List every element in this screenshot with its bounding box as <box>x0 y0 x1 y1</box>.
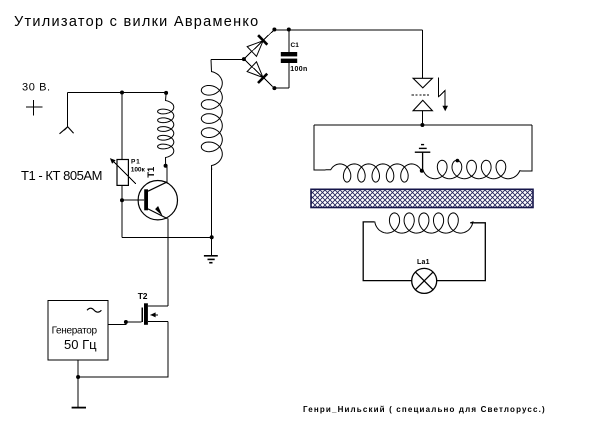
resistor P1 body <box>117 160 128 186</box>
wire source down and left <box>78 322 168 377</box>
wire bus <box>314 124 532 126</box>
inductor L3 bifilar left <box>326 164 422 182</box>
node gate dot <box>124 320 128 324</box>
svg-text:P1: P1 <box>131 159 141 166</box>
wire to ground symbol <box>211 237 213 255</box>
wire base <box>122 199 144 201</box>
svg-text:C1: C1 <box>291 42 300 49</box>
svg-text:30 В.: 30 В. <box>22 82 51 94</box>
screen plate hatched <box>311 189 533 207</box>
wire L2 top to diode node <box>211 59 244 61</box>
generator box <box>48 301 108 361</box>
spark gap FV1 <box>412 78 433 125</box>
wire receiver loop right <box>437 223 486 281</box>
svg-text:50 Гц: 50 Гц <box>64 337 97 352</box>
resistor P1 wiper arrow <box>110 158 136 184</box>
wire P1 to base node <box>121 185 123 200</box>
node C1 tap <box>287 28 291 32</box>
transistor T1 <box>138 181 177 220</box>
wire bus left drop <box>314 125 326 170</box>
node bifilar center <box>420 169 424 173</box>
wire generator bottom <box>77 360 79 408</box>
ground <box>204 256 218 263</box>
svg-text:T2: T2 <box>138 291 148 301</box>
node top rail left <box>272 28 276 32</box>
svg-text:Генератор: Генератор <box>52 326 98 337</box>
diode VD2 lower <box>244 59 275 88</box>
node bus junction <box>420 123 424 127</box>
node coil bottom / collector <box>164 164 168 168</box>
wire ground horizontal <box>122 236 212 238</box>
node coil top <box>164 91 168 95</box>
wire top-left horizontal <box>68 92 166 94</box>
wire base node down <box>121 200 123 237</box>
lamp La1 <box>412 268 437 293</box>
wire drain up <box>167 300 169 306</box>
node diode center <box>242 57 246 61</box>
node winding tap <box>456 159 460 163</box>
node source junction <box>76 375 80 379</box>
node base junction <box>120 198 124 202</box>
capacitor C1 <box>281 30 297 88</box>
inductor L5 receiver <box>374 213 473 233</box>
diode VD1 upper <box>244 30 275 60</box>
svg-text:Т1: Т1 <box>146 166 157 178</box>
wire bifilar right end <box>522 125 533 171</box>
wire collector <box>166 166 168 182</box>
wire gate from generator <box>109 324 127 326</box>
wire diode bottom to C1 <box>274 87 288 89</box>
wire gate to T2 <box>126 321 142 323</box>
inductor L4 bifilar right <box>423 160 522 178</box>
node junction top <box>120 91 124 95</box>
wire top rail <box>274 29 422 31</box>
node diode bottom <box>272 86 276 90</box>
wire emitter down to T2 drain <box>167 219 169 307</box>
generator sine symbol <box>87 308 101 312</box>
wire receiver loop left <box>363 222 412 281</box>
svg-text:La1: La1 <box>417 259 430 266</box>
plus symbol <box>26 100 42 115</box>
wire antenna drop <box>67 93 69 127</box>
svg-text:100n: 100n <box>290 66 307 73</box>
svg-text:100к: 100к <box>131 166 146 173</box>
wire top rail drop to spark gap <box>421 30 423 78</box>
ground bar bottom <box>72 407 86 409</box>
svg-text:Утилизатор с вилки Авраменко: Утилизатор с вилки Авраменко <box>14 14 260 30</box>
wire to P1 <box>121 93 123 160</box>
inductor L2 secondary <box>201 60 222 171</box>
inverted ground electrode <box>415 145 431 171</box>
wire L2 bottom stem <box>211 168 213 238</box>
inductor L1 feedback winding <box>158 93 174 164</box>
antenna arrow terminal <box>60 127 74 134</box>
svg-text:Т1 - КТ 805АМ: Т1 - КТ 805АМ <box>21 168 102 183</box>
transistor T2 mosfet <box>142 303 168 325</box>
node ground junction <box>210 235 214 239</box>
svg-text:Генри_Нильский ( специально дл: Генри_Нильский ( специально для Светлору… <box>303 405 546 414</box>
discharge lightning arrow <box>439 78 448 112</box>
